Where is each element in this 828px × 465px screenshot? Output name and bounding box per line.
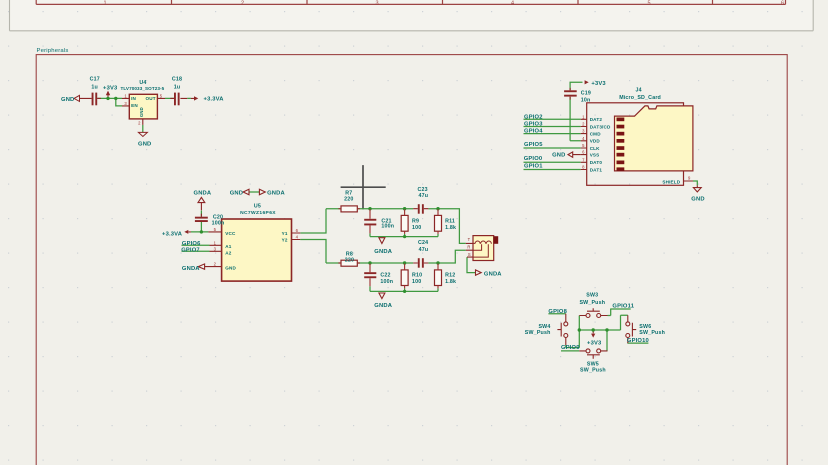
svg-text:DAT3/CD: DAT3/CD: [590, 124, 611, 129]
svg-text:GPIO7: GPIO7: [181, 248, 200, 254]
svg-text:100n: 100n: [380, 279, 393, 285]
svg-text:GND: GND: [138, 141, 151, 147]
svg-text:100: 100: [412, 225, 421, 231]
svg-text:GPIO9: GPIO9: [561, 345, 580, 351]
svg-text:GPIO3: GPIO3: [524, 121, 543, 127]
svg-text:GPIO10: GPIO10: [627, 338, 649, 344]
svg-text:GND: GND: [691, 197, 704, 203]
svg-text:100: 100: [412, 279, 421, 285]
svg-text:1u: 1u: [174, 84, 181, 90]
svg-text:1.8k: 1.8k: [445, 279, 456, 285]
svg-text:IN: IN: [131, 96, 136, 101]
svg-text:GPIO11: GPIO11: [612, 304, 634, 310]
svg-text:220: 220: [345, 257, 354, 263]
svg-text:VSS: VSS: [590, 153, 600, 158]
svg-text:GNDA: GNDA: [484, 272, 502, 278]
svg-text:2: 2: [241, 1, 244, 7]
svg-text:C24: C24: [418, 240, 428, 246]
svg-text:C17: C17: [90, 76, 100, 82]
svg-text:J4: J4: [635, 88, 641, 94]
svg-text:Y2: Y2: [282, 237, 288, 242]
svg-text:1.8k: 1.8k: [445, 225, 456, 231]
svg-text:5: 5: [647, 1, 650, 7]
svg-text:GND: GND: [61, 97, 74, 103]
svg-text:4: 4: [511, 1, 514, 7]
svg-text:GPIO1: GPIO1: [524, 163, 543, 169]
svg-text:GPIO8: GPIO8: [548, 309, 567, 315]
svg-text:R10: R10: [412, 272, 422, 278]
svg-text:C22: C22: [380, 272, 390, 278]
svg-text:VDD: VDD: [590, 139, 601, 144]
svg-text:Peripherals: Peripherals: [37, 48, 69, 54]
svg-text:R9: R9: [412, 218, 419, 224]
svg-text:220: 220: [344, 197, 353, 203]
svg-text:A1: A1: [225, 244, 231, 249]
svg-text:100n: 100n: [381, 224, 394, 230]
svg-text:OUT: OUT: [145, 96, 155, 101]
svg-text:3: 3: [375, 1, 378, 7]
svg-text:TLV70033_SOT23-5: TLV70033_SOT23-5: [120, 86, 164, 91]
svg-text:1: 1: [103, 1, 106, 7]
svg-text:CMD: CMD: [590, 132, 602, 137]
svg-text:GPIO5: GPIO5: [524, 142, 543, 148]
svg-text:DAT2: DAT2: [590, 117, 603, 122]
svg-text:GND: GND: [552, 153, 565, 159]
svg-text:10n: 10n: [581, 98, 591, 104]
svg-text:SW_Push: SW_Push: [579, 300, 605, 306]
svg-text:+3V3: +3V3: [103, 85, 118, 91]
svg-text:DAT0: DAT0: [590, 160, 603, 165]
svg-text:+3V3: +3V3: [591, 81, 606, 87]
svg-text:SW4: SW4: [538, 324, 550, 330]
svg-text:GNDA: GNDA: [374, 249, 392, 255]
svg-text:U4: U4: [139, 80, 146, 86]
svg-text:1u: 1u: [91, 84, 98, 90]
svg-text:GND: GND: [230, 190, 243, 196]
svg-text:+3V3: +3V3: [587, 340, 602, 346]
svg-text:CLK: CLK: [590, 146, 600, 151]
svg-text:GNDA: GNDA: [194, 190, 212, 196]
svg-text:GND: GND: [139, 107, 144, 117]
svg-text:GPIO4: GPIO4: [524, 129, 543, 135]
svg-text:C19: C19: [581, 91, 591, 97]
svg-text:GPIO0: GPIO0: [524, 156, 543, 162]
svg-text:NC7WZ16P6X: NC7WZ16P6X: [240, 210, 276, 216]
svg-text:SW_Push: SW_Push: [580, 367, 606, 373]
svg-text:SW_Push: SW_Push: [639, 330, 665, 336]
svg-text:GNDA: GNDA: [267, 190, 285, 196]
svg-text:+3.3VA: +3.3VA: [162, 231, 183, 237]
svg-text:VCC: VCC: [225, 231, 236, 236]
svg-text:GNDA: GNDA: [182, 266, 200, 272]
svg-text:100n: 100n: [212, 221, 225, 227]
svg-text:+3.3VA: +3.3VA: [204, 97, 225, 103]
svg-text:R11: R11: [445, 218, 455, 224]
svg-text:SW3: SW3: [586, 293, 598, 299]
svg-text:EN: EN: [131, 103, 138, 108]
svg-text:GND: GND: [225, 266, 236, 271]
svg-text:Micro_SD_Card: Micro_SD_Card: [619, 95, 661, 101]
svg-text:R12: R12: [445, 272, 455, 278]
svg-text:DAT1: DAT1: [590, 167, 603, 172]
svg-text:SHIELD: SHIELD: [662, 180, 680, 185]
svg-text:GPIO6: GPIO6: [182, 241, 201, 247]
svg-text:GNDA: GNDA: [374, 303, 392, 309]
svg-text:GPIO2: GPIO2: [524, 115, 543, 121]
svg-text:6: 6: [781, 1, 784, 7]
svg-text:U5: U5: [254, 204, 261, 210]
svg-text:C18: C18: [172, 76, 182, 82]
svg-text:47u: 47u: [419, 193, 429, 199]
svg-text:SW_Push: SW_Push: [525, 330, 551, 336]
svg-text:Y1: Y1: [282, 231, 288, 236]
svg-text:S: S: [468, 252, 471, 257]
svg-text:R: R: [467, 245, 470, 250]
svg-text:A2: A2: [225, 250, 231, 255]
svg-text:47u: 47u: [419, 247, 429, 253]
